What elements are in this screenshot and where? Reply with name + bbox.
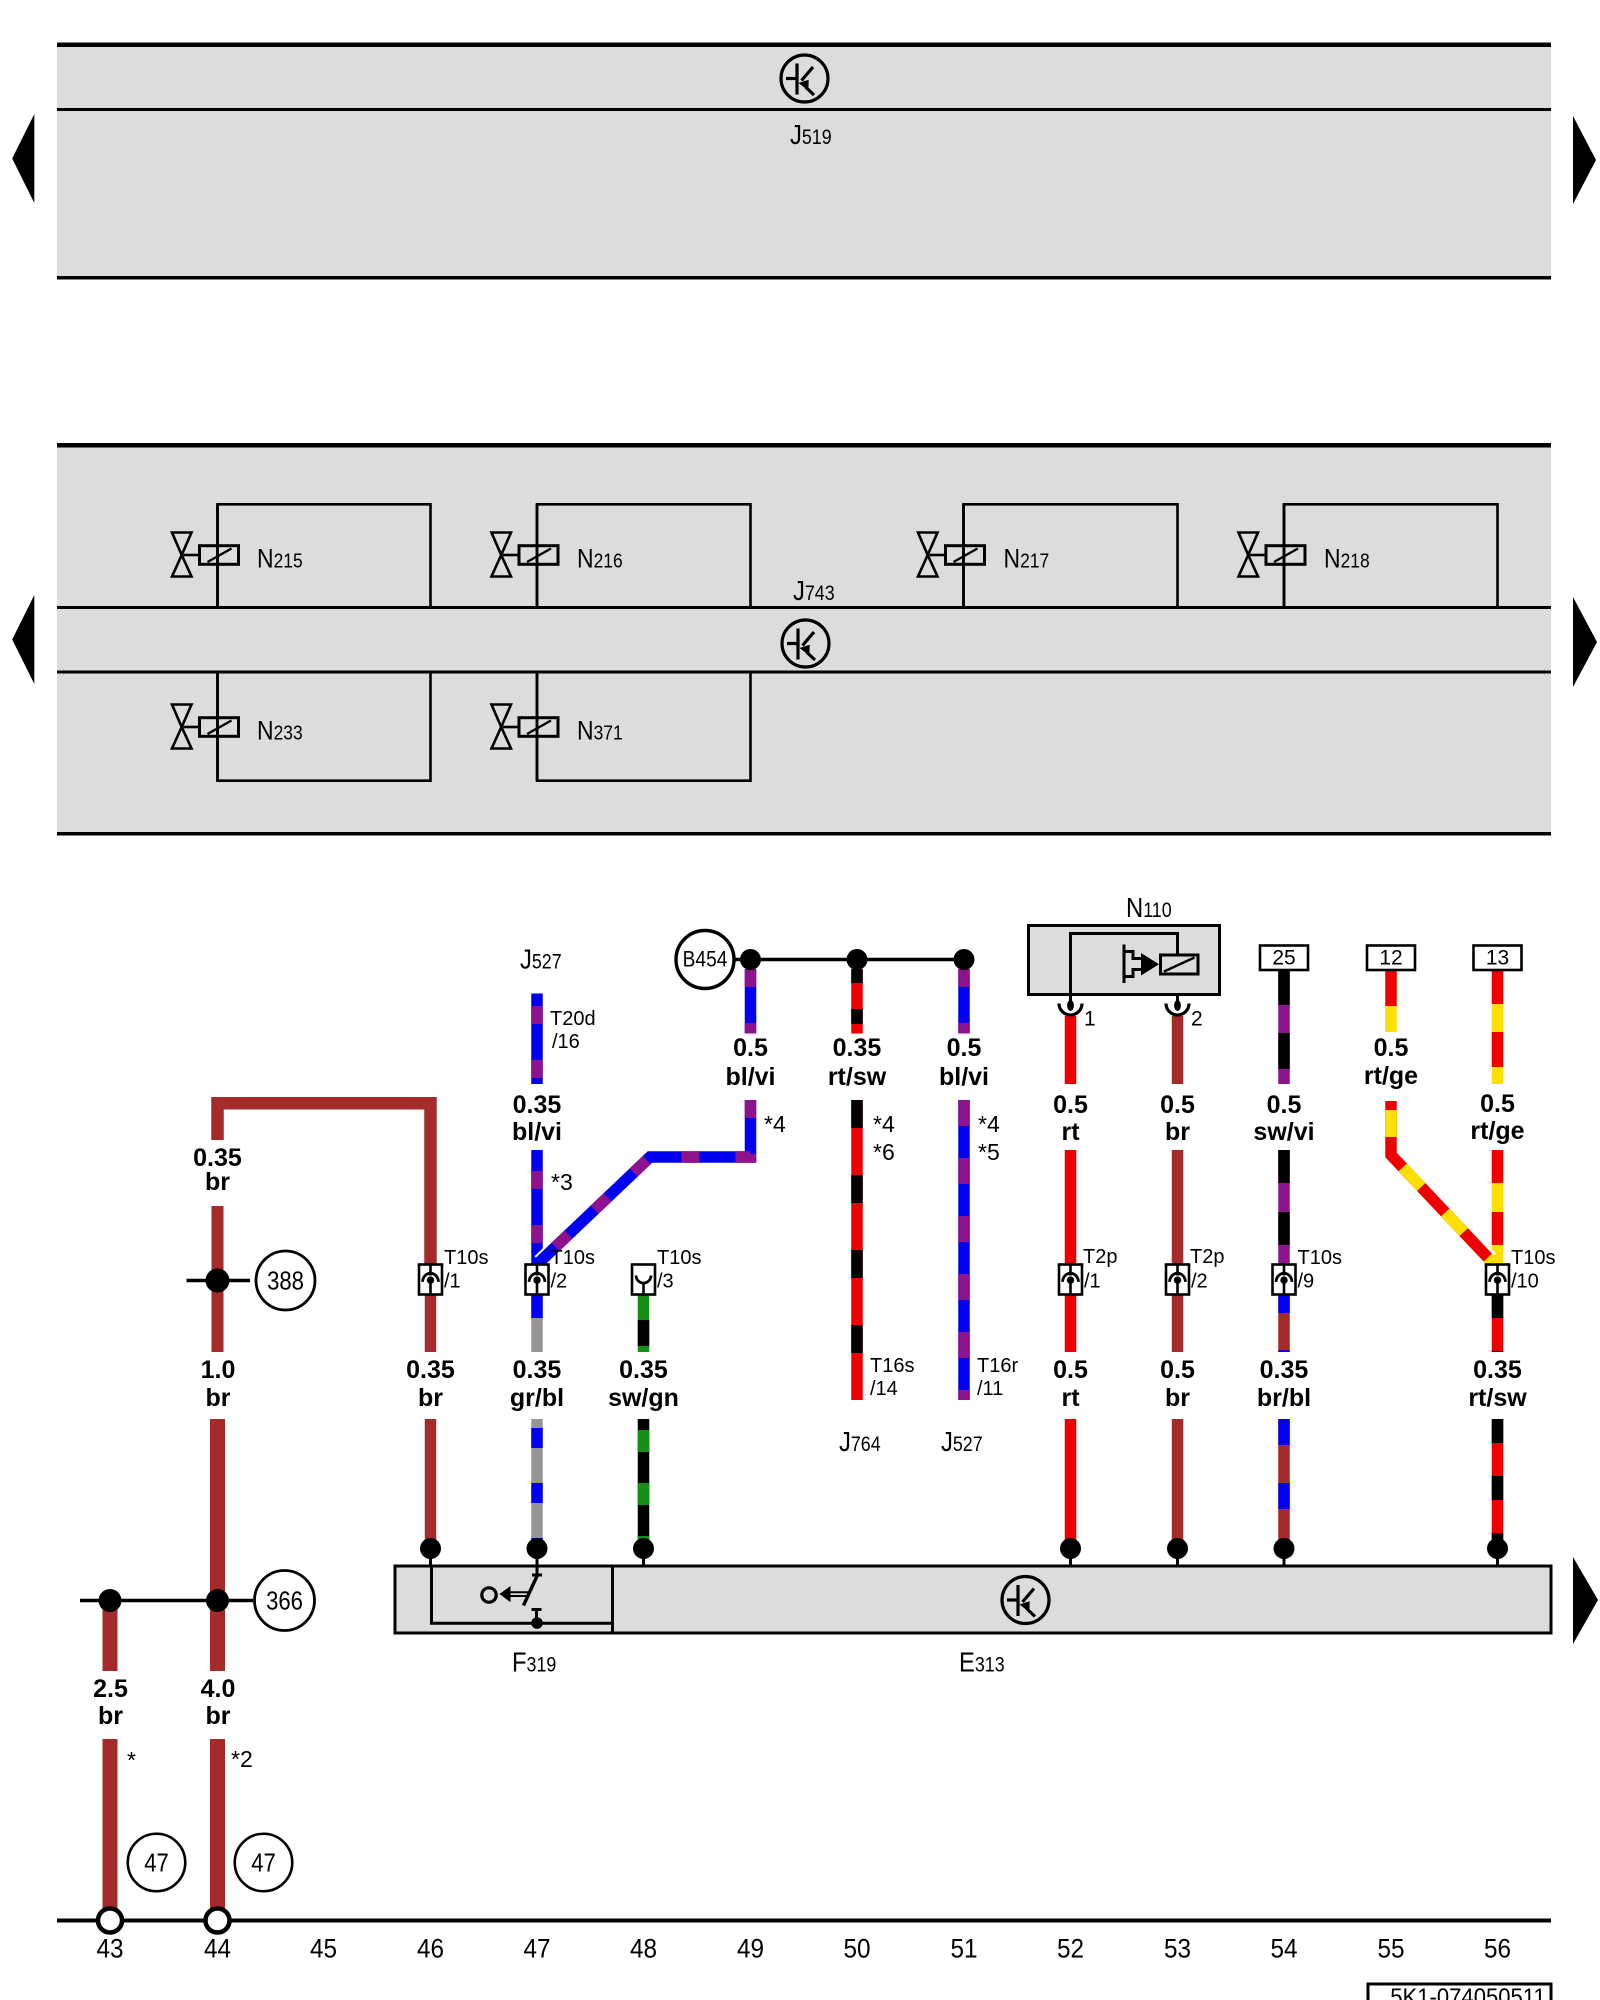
wire 0.5 rt/ge col56 to T10s/10 <box>1492 1150 1504 1263</box>
F319 upper feed stem <box>536 1566 539 1575</box>
svg-text:0.35: 0.35 <box>619 1356 668 1384</box>
valve N218 symbol <box>1239 533 1306 577</box>
svg-text:T10s: T10s <box>657 1247 701 1269</box>
svg-text:/2: /2 <box>551 1271 568 1293</box>
svg-text:br: br <box>206 1702 231 1730</box>
N110 internal wire <box>1071 934 1178 995</box>
svg-text:sw/gn: sw/gn <box>608 1384 679 1412</box>
ground symbol 47 circle (col43) <box>128 1834 186 1892</box>
svg-text:*2: *2 <box>231 1746 253 1772</box>
svg-text:/14: /14 <box>870 1378 898 1400</box>
valve N233 symbol <box>172 705 239 749</box>
svg-text:/2: /2 <box>1191 1271 1208 1293</box>
ground point 388 line <box>187 1279 251 1283</box>
F319 actuation arrowhead <box>500 1586 511 1602</box>
svg-text:T2p: T2p <box>1190 1246 1224 1268</box>
valve N371 box <box>537 672 751 781</box>
svg-text:47: 47 <box>523 1934 550 1963</box>
stem+dot col47 <box>536 1549 539 1566</box>
junction dots above E313 with stems <box>420 1538 1508 1566</box>
valve N217 box <box>964 504 1178 608</box>
B454 junction bus line <box>733 958 964 962</box>
svg-text:388: 388 <box>267 1267 304 1296</box>
wire 0.35 rt/sw col50 to T16s/14 <box>851 1100 863 1400</box>
svg-text:T10s: T10s <box>1298 1247 1342 1269</box>
wire 0.5 bl/vi col49 elbow white outline <box>540 1154 653 1262</box>
wire 0.35 sw/gn col48 to E313 <box>638 1419 650 1549</box>
svg-text:rt: rt <box>1061 1118 1080 1146</box>
wire 0.35 br/bl col54 to E313 <box>1278 1419 1290 1549</box>
valve N215 symbol <box>172 533 239 577</box>
wire 0.5 rt col52 from N110 pin1 <box>1065 1016 1077 1084</box>
svg-text:0.5: 0.5 <box>1160 1356 1195 1384</box>
bottom terminal line <box>57 1919 1551 1923</box>
svg-text:*4: *4 <box>873 1111 895 1137</box>
F319 internal bottom rail <box>430 1622 611 1625</box>
valve N215 box <box>218 504 431 608</box>
svg-text:br: br <box>205 1168 230 1196</box>
wire 0.35 br col46 to E313 <box>425 1419 437 1549</box>
valve N233 box <box>218 672 431 781</box>
F319 lower contact T <box>535 1610 538 1620</box>
svg-text:rt/ge: rt/ge <box>1470 1117 1524 1145</box>
svg-text:47: 47 <box>144 1849 169 1878</box>
svg-text:/11: /11 <box>977 1378 1003 1400</box>
wire 0.35 bl/vi col47 to connector T10s/2 <box>531 1150 543 1266</box>
junction dot col44 at 388 <box>206 1269 230 1293</box>
svg-text:52: 52 <box>1057 1934 1084 1963</box>
svg-text:*: * <box>127 1747 136 1773</box>
wire 0.35 rt/sw col56 to E313 <box>1492 1419 1504 1549</box>
svg-text:rt/sw: rt/sw <box>828 1063 887 1091</box>
terminal 13 box <box>1474 946 1522 971</box>
svg-text:rt/sw: rt/sw <box>1468 1384 1527 1412</box>
F319 contact ring <box>482 1588 496 1602</box>
ground symbol 47 circle (col44) <box>235 1834 293 1892</box>
wire 0.5 sw/vi col54 from terminal 25 <box>1278 969 1290 1084</box>
svg-text:53: 53 <box>1164 1934 1191 1963</box>
continuation symbol in J519 <box>781 55 828 102</box>
valve N216 symbol <box>492 533 559 577</box>
svg-text:48: 48 <box>630 1934 657 1963</box>
F319 internal wire left <box>430 1566 433 1623</box>
svg-text:0.5: 0.5 <box>1374 1034 1409 1062</box>
svg-text:0.5: 0.5 <box>1267 1091 1302 1119</box>
wire 2.5 br col43 <box>103 1600 118 1671</box>
svg-text:T10s: T10s <box>444 1247 488 1269</box>
right continuation arrow (middle band) <box>1573 597 1597 687</box>
svg-text:13: 13 <box>1486 947 1509 970</box>
terminal 43 eyelet <box>98 1909 122 1933</box>
valve N218 box <box>1284 504 1498 608</box>
svg-text:0.5: 0.5 <box>1160 1091 1195 1119</box>
svg-text:bl/vi: bl/vi <box>725 1063 775 1091</box>
svg-text:T2p: T2p <box>1083 1246 1117 1268</box>
valve N216 box <box>537 504 751 608</box>
svg-text:N110: N110 <box>1126 891 1172 923</box>
svg-text:bl/vi: bl/vi <box>512 1118 562 1146</box>
svg-text:J764: J764 <box>839 1425 881 1457</box>
wire 1.0 br col44 middle <box>212 1206 224 1352</box>
connector T10s/1 <box>419 1265 442 1295</box>
junction dot col44 at 366 <box>206 1589 229 1612</box>
junction dot col49 <box>740 949 761 970</box>
svg-text:0.35: 0.35 <box>513 1356 562 1384</box>
F319 actuation arrow double line <box>509 1591 528 1593</box>
continuation symbol in E313 <box>1002 1577 1049 1624</box>
terminal 44 eyelet <box>206 1909 230 1933</box>
N110 pin 1 <box>1069 994 1072 1002</box>
svg-text:br: br <box>418 1384 443 1412</box>
svg-text:0.5: 0.5 <box>733 1034 768 1062</box>
svg-text:25: 25 <box>1272 947 1295 970</box>
svg-text:T16r: T16r <box>977 1355 1018 1377</box>
stem+dot col48 <box>642 1549 645 1566</box>
wire 0.5 rt/ge col55 diagonal to T10s/10 <box>1391 1101 1492 1262</box>
F319 switch common junction dot <box>531 1617 543 1629</box>
svg-text:*4: *4 <box>764 1111 786 1137</box>
wire 0.35 gr/bl col47 to E313 <box>531 1419 543 1549</box>
svg-text:/16: /16 <box>552 1031 580 1053</box>
svg-text:F319: F319 <box>512 1646 556 1678</box>
svg-text:1.0: 1.0 <box>201 1356 236 1384</box>
connector T10s/3 <box>632 1265 655 1295</box>
wire 2.5 br col43 to terminal <box>103 1739 118 1909</box>
ground point 366 line <box>80 1599 253 1603</box>
svg-text:gr/bl: gr/bl <box>510 1384 564 1412</box>
grid numbers row <box>96 1934 1511 1963</box>
wire 0.5 sw/vi col54 to T10s/9 <box>1278 1150 1290 1266</box>
wire 0.5 rt/ge col55 from terminal 12 <box>1385 969 1397 1032</box>
svg-text:*4: *4 <box>978 1111 1000 1137</box>
connector T2p/1 <box>1059 1265 1082 1295</box>
wire 0.35 rt/sw col50 from B454 junction <box>851 969 863 1034</box>
wire 0.5 rt/ge col56 from terminal 13 <box>1492 969 1504 1084</box>
wire 0.5 bl/vi col49 elbow to T10s/2 <box>538 1100 751 1264</box>
svg-text:br: br <box>1165 1384 1190 1412</box>
svg-text:0.5: 0.5 <box>1053 1356 1088 1384</box>
right continuation arrow (E313) <box>1573 1557 1598 1644</box>
valve N371 symbol <box>492 705 559 749</box>
stem+dot col46 <box>429 1549 432 1566</box>
svg-text:54: 54 <box>1270 1934 1297 1963</box>
svg-text:/9: /9 <box>1298 1271 1315 1293</box>
left continuation arrow (top band) <box>12 114 34 203</box>
svg-text:rt: rt <box>1061 1384 1080 1412</box>
connector T10s/10 <box>1486 1265 1509 1295</box>
onboard supply control unit J519 band <box>57 43 1551 280</box>
wire 4.0 br col44 lower <box>210 1419 225 1671</box>
svg-text:0.35: 0.35 <box>1260 1356 1309 1384</box>
diagram part number box <box>1368 1984 1551 2000</box>
svg-text:12: 12 <box>1379 947 1402 970</box>
stem+dot col53 <box>1176 1549 1179 1566</box>
svg-text:br: br <box>1165 1118 1190 1146</box>
terminal 25 box <box>1260 946 1308 971</box>
svg-text:sw/vi: sw/vi <box>1253 1118 1314 1146</box>
svg-text:*3: *3 <box>551 1169 573 1195</box>
wire 0.5 rt/ge col55 diagonal white outline <box>1393 1154 1491 1259</box>
right continuation arrow (top band) <box>1573 116 1596 204</box>
svg-text:5K1-074050511: 5K1-074050511 <box>1390 1983 1545 2000</box>
junction dot col43 at 366 <box>99 1589 122 1612</box>
F319 switch blade <box>524 1576 538 1606</box>
svg-text:br: br <box>98 1702 123 1730</box>
svg-text:49: 49 <box>737 1934 764 1963</box>
N110 pin 2 <box>1176 994 1179 1002</box>
wire 0.5 rt col52 to E313 <box>1065 1419 1077 1549</box>
svg-text:*5: *5 <box>978 1139 1000 1165</box>
svg-text:J527: J527 <box>520 943 562 975</box>
svg-text:2: 2 <box>1191 1008 1203 1031</box>
svg-text:T20d: T20d <box>550 1008 596 1030</box>
svg-text:1: 1 <box>1084 1008 1096 1031</box>
continuation symbol in J743 <box>782 620 829 667</box>
stem+dot col56 <box>1496 1549 1499 1566</box>
svg-text:366: 366 <box>266 1587 303 1616</box>
svg-text:0.5: 0.5 <box>1053 1091 1088 1119</box>
svg-text:T10s: T10s <box>551 1247 595 1269</box>
junction dot col51 <box>954 949 975 970</box>
wire 0.5 bl/vi col51 from B454 junction <box>958 969 970 1034</box>
svg-text:J527: J527 <box>941 1425 983 1457</box>
N110 driver symbol <box>1124 945 1141 984</box>
svg-text:4.0: 4.0 <box>201 1675 236 1703</box>
mechatronic unit J743 band <box>57 443 1551 836</box>
stem+dot col52 <box>1069 1549 1072 1566</box>
connector T10s/9 <box>1273 1265 1296 1295</box>
wire 0.5 br col53 from N110 pin2 <box>1172 1016 1184 1084</box>
wire 0.35 bl/vi col47 from J527 T20d/16 <box>531 994 543 1085</box>
valve N217 symbol <box>918 533 985 577</box>
wire 0.5 br col53 middle <box>1172 1150 1184 1352</box>
connector T2p/2 <box>1166 1265 1189 1295</box>
svg-text:0.35: 0.35 <box>1473 1356 1522 1384</box>
svg-text:0.5: 0.5 <box>1480 1090 1515 1118</box>
svg-text:bl/vi: bl/vi <box>939 1063 989 1091</box>
selector lever park position switch F319 internals <box>430 1566 611 1629</box>
svg-text:55: 55 <box>1377 1934 1404 1963</box>
svg-text:50: 50 <box>843 1934 870 1963</box>
svg-text:0.5: 0.5 <box>947 1034 982 1062</box>
wire 0.5 bl/vi col49 from B454 junction <box>745 969 757 1034</box>
svg-text:0.35: 0.35 <box>833 1034 882 1062</box>
svg-text:B454: B454 <box>683 947 728 972</box>
valve N215 stem <box>216 504 219 607</box>
left continuation arrow (middle band) <box>12 595 34 684</box>
wire 0.35 rt/sw col56 below connector <box>1492 1294 1504 1352</box>
wire 0.5 br col53 to E313 <box>1172 1419 1184 1549</box>
wire 0.35 gr/bl col47 below connector <box>531 1294 543 1352</box>
ground designation 388 circle <box>256 1251 315 1310</box>
svg-text:43: 43 <box>96 1934 123 1963</box>
terminal 12 box <box>1367 946 1415 971</box>
junction dot col50 <box>847 949 868 970</box>
wire 0.35 sw/gn col48 below connector <box>638 1294 650 1352</box>
wire 0.35 br/bl col54 below connector <box>1278 1294 1290 1352</box>
svg-text:E313: E313 <box>959 1646 1005 1678</box>
wire 4.0 br col44 to terminal <box>210 1739 225 1909</box>
svg-text:51: 51 <box>950 1934 977 1963</box>
stem+dot col54 <box>1283 1549 1286 1566</box>
svg-text:47: 47 <box>251 1849 276 1878</box>
wire 0.35br/1.0br loop col44-col46 top <box>218 1103 431 1266</box>
wire 0.35 br col46 below connector <box>425 1294 437 1352</box>
svg-text:/1: /1 <box>444 1271 461 1293</box>
svg-text:T16s: T16s <box>870 1355 914 1377</box>
ground designation 366 circle <box>255 1571 315 1631</box>
svg-text:br: br <box>206 1384 231 1412</box>
svg-text:46: 46 <box>417 1934 444 1963</box>
svg-text:/1: /1 <box>1084 1271 1101 1293</box>
svg-text:0.35: 0.35 <box>513 1091 562 1119</box>
svg-text:*6: *6 <box>873 1139 895 1165</box>
connector T10s/2 <box>526 1265 549 1295</box>
svg-text:/10: /10 <box>1511 1271 1539 1293</box>
svg-text:44: 44 <box>204 1934 231 1963</box>
brake servo relay N110 box <box>1029 891 1220 1030</box>
svg-text:/3: /3 <box>657 1271 674 1293</box>
svg-text:45: 45 <box>310 1934 337 1963</box>
wire 0.5 bl/vi col51 to T16r/11 <box>958 1100 970 1400</box>
svg-text:T10s: T10s <box>1511 1247 1555 1269</box>
svg-text:0.35: 0.35 <box>406 1356 455 1384</box>
svg-text:rt/ge: rt/ge <box>1364 1062 1418 1090</box>
E313 band <box>395 1566 1551 1633</box>
connection B454 circle <box>676 931 734 989</box>
wire 0.5 rt col52 middle <box>1065 1150 1077 1352</box>
N110 relay coil <box>1161 955 1199 974</box>
svg-text:br/bl: br/bl <box>1257 1384 1311 1412</box>
svg-text:56: 56 <box>1484 1934 1511 1963</box>
svg-text:2.5: 2.5 <box>93 1675 128 1703</box>
